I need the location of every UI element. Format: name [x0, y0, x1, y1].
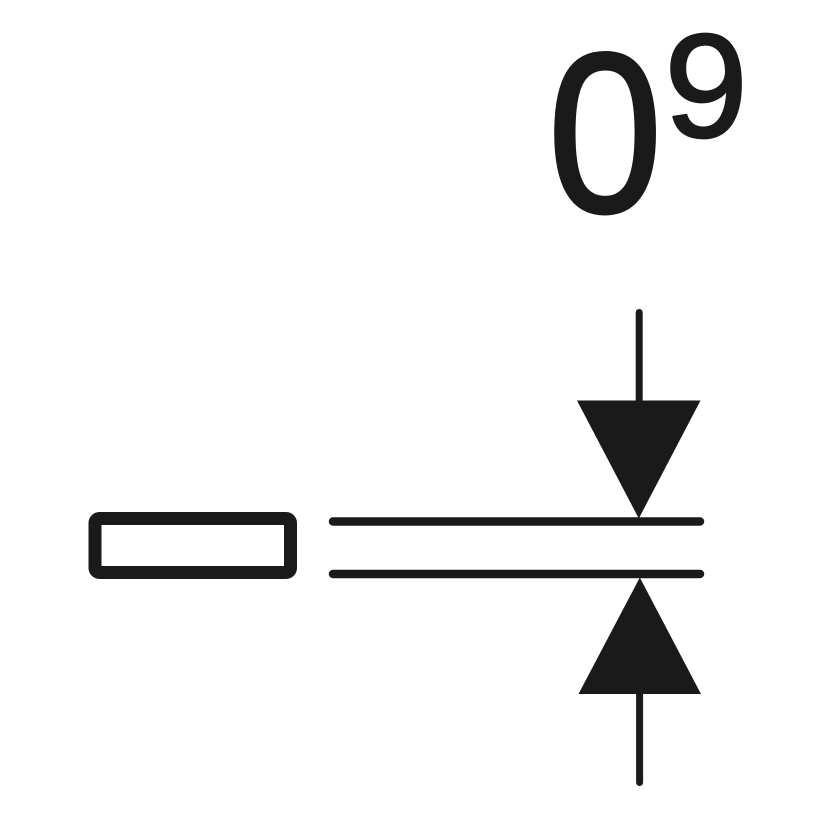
bottom arrow shaft	[636, 694, 643, 783]
upper wall line	[333, 517, 700, 526]
bottom arrow head (triangle pointing up)	[579, 578, 702, 695]
lower wall line	[333, 570, 700, 579]
svg-text:9: 9	[665, 5, 748, 169]
top arrow head (triangle pointing down)	[577, 401, 701, 519]
actuator plate (rounded rectangle)	[95, 519, 291, 573]
svg-text:0: 0	[548, 6, 663, 260]
top arrow shaft	[636, 313, 643, 403]
